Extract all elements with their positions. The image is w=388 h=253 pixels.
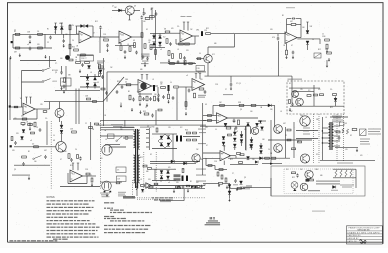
bridge rectifier D25: [167, 136, 170, 139]
ground: [63, 90, 65, 92]
wire: [203, 157, 220, 159]
ground: [28, 177, 30, 179]
svg-text:LF: LF: [222, 154, 224, 156]
resistor R85: [149, 186, 153, 188]
diode D34: [222, 142, 225, 145]
diode D5: [112, 9, 126, 11]
diode D58: [228, 191, 231, 194]
resistor R80b: [193, 139, 197, 141]
capacitor C41: [44, 156, 47, 157]
bridge rectifier D28: [160, 171, 163, 174]
svg-text:1N: 1N: [104, 115, 106, 117]
svg-text:10K: 10K: [302, 27, 305, 29]
resistor R79b: [187, 139, 191, 141]
diode D53: [259, 121, 261, 124]
wire: [21, 71, 23, 108]
diode D35: [234, 128, 236, 132]
wire: [76, 26, 78, 34]
wire: [293, 91, 314, 93]
resistor R116: [99, 72, 101, 77]
ground: [328, 58, 330, 60]
svg-text:CR4: CR4: [315, 169, 318, 171]
ground: [356, 149, 358, 151]
svg-text:50V: 50V: [12, 150, 15, 152]
diode D15: [94, 74, 96, 77]
capacitor C36: [233, 120, 236, 121]
resistor R13: [141, 33, 143, 38]
resistor R124: [93, 101, 97, 103]
wire: [313, 85, 315, 106]
svg-text:IC2: IC2: [308, 90, 311, 92]
capacitor C28 electrolytic: [168, 85, 170, 91]
switch S4: [34, 156, 42, 159]
svg-text:DATE OF: DATE OF: [348, 240, 357, 243]
svg-text:353: 353: [16, 133, 19, 135]
svg-text:15V: 15V: [40, 104, 43, 106]
resistor array R105: [340, 170, 342, 177]
diode D47: [141, 189, 143, 192]
svg-text:10: 10: [215, 129, 217, 131]
speaker enclosure dotted: [284, 169, 353, 194]
op-amp U3: [23, 103, 35, 115]
connector pin: [146, 137, 149, 139]
resistor R32: [327, 52, 332, 54]
svg-text:CR4: CR4: [196, 30, 199, 32]
resistor R31: [286, 50, 288, 55]
note line 13: [53, 239, 58, 240]
wire: [179, 86, 192, 88]
svg-text:R22: R22: [117, 81, 120, 83]
note line 11: [47, 233, 50, 234]
resistor R60: [251, 104, 256, 106]
capacitor C29: [188, 90, 191, 91]
wire: [30, 97, 32, 104]
wire: [223, 182, 230, 184]
wire: [96, 124, 206, 126]
svg-text:R12: R12: [230, 159, 233, 161]
wire: [334, 125, 340, 127]
resistor R110: [136, 182, 138, 196]
diode D21: [21, 137, 24, 140]
connector pin: [146, 129, 149, 131]
note line 2: [47, 204, 52, 205]
wire: [334, 135, 340, 137]
ground: [45, 55, 47, 57]
svg-text:D2: D2: [32, 144, 34, 146]
node part number text: [286, 7, 295, 8]
svg-text:uF: uF: [160, 49, 162, 51]
svg-text:R22: R22: [292, 177, 295, 179]
wire: [230, 187, 246, 189]
resistor R40: [21, 123, 25, 125]
wire: [175, 39, 177, 44]
diode D8: [159, 34, 161, 36]
diode D10: [307, 22, 309, 30]
resistor R100: [336, 131, 340, 133]
wire: [107, 71, 206, 73]
ground: [140, 111, 142, 113]
diode D33: [222, 137, 225, 140]
ground: [226, 186, 228, 188]
resistor R121: [228, 134, 232, 136]
capacitor C34: [230, 84, 233, 85]
resistor R69: [34, 146, 39, 148]
capacitor C27 electrolytic: [153, 85, 155, 91]
wire: [258, 120, 266, 122]
svg-text:D2: D2: [146, 29, 148, 31]
switch S3: [42, 81, 44, 83]
svg-text:33K: 33K: [270, 109, 273, 111]
svg-text:.01: .01: [90, 72, 92, 74]
resistor R24: [185, 43, 190, 45]
resistor R129: [239, 162, 243, 164]
diode D39: [240, 140, 243, 143]
wire: [316, 180, 340, 182]
ground: [326, 50, 328, 52]
resistor R90: [219, 169, 223, 171]
wire: [165, 32, 180, 34]
diode D44: [240, 181, 243, 184]
ground: [10, 56, 12, 58]
wire: [152, 133, 165, 135]
svg-text:10K: 10K: [65, 34, 68, 36]
svg-text:15V: 15V: [168, 127, 171, 129]
svg-text:33K: 33K: [120, 129, 123, 131]
svg-text:2.2K: 2.2K: [197, 68, 200, 70]
ground: [106, 194, 108, 196]
connector ladder: [148, 128, 150, 150]
capacitor C3: [49, 37, 52, 38]
svg-text:LF: LF: [177, 49, 179, 51]
svg-text:C7: C7: [112, 6, 114, 8]
capacitor C14: [169, 44, 172, 45]
capacitor C25: [121, 87, 124, 88]
connector pin: [146, 146, 149, 148]
op-amp U1B: [119, 31, 132, 43]
svg-text:47: 47: [194, 82, 196, 84]
resistor R3: [38, 33, 43, 35]
wire: [92, 36, 100, 38]
svg-text:CR4: CR4: [200, 159, 203, 161]
op-amp U5: [192, 79, 205, 91]
resistor R10: [145, 17, 150, 19]
wire: [103, 77, 124, 102]
op-amp U6: [217, 113, 228, 123]
resistor R62: [307, 95, 311, 97]
capacitor C54: [200, 185, 202, 188]
resistor R70: [11, 137, 13, 141]
resistor R44: [170, 63, 175, 65]
fuse F2: [116, 182, 120, 184]
svg-text:22: 22: [285, 135, 287, 137]
svg-text:47: 47: [93, 33, 95, 35]
svg-text:100: 100: [218, 116, 221, 118]
wire: [102, 58, 104, 126]
bridge rectifier D26: [160, 143, 163, 146]
resistor R92: [221, 175, 223, 179]
wire: [285, 127, 287, 158]
capacitor C15 electrolytic: [201, 31, 203, 36]
wire: [289, 87, 320, 89]
node text: [111, 124, 123, 125]
note2 line 2: [110, 210, 113, 211]
svg-text:CR4: CR4: [322, 36, 325, 38]
diode D60: [255, 161, 258, 164]
svg-text:10: 10: [199, 53, 201, 55]
ground: [29, 40, 31, 42]
wire: [151, 8, 153, 20]
diode D1: [55, 23, 57, 27]
node input jack J1: [11, 41, 13, 43]
wire: [36, 109, 38, 119]
wire: [319, 39, 321, 44]
resistor R127: [238, 187, 242, 189]
wire: [115, 45, 135, 47]
svg-text:470: 470: [168, 167, 171, 169]
wire: [152, 168, 176, 170]
resistor R122: [240, 154, 244, 156]
wire: [100, 36, 119, 38]
svg-text:LF: LF: [36, 127, 38, 129]
transformer T1 primary winding: [133, 131, 135, 148]
wire: [334, 130, 340, 132]
diode D56: [247, 157, 250, 160]
capacitor C55: [101, 77, 104, 78]
resistor R59: [239, 104, 244, 106]
wire: [245, 126, 247, 150]
transistor Q1: [125, 6, 134, 15]
wire: [124, 120, 126, 126]
wire: [290, 105, 344, 107]
wire: [55, 89, 100, 91]
svg-text:100: 100: [143, 21, 146, 23]
op-amp U4: [138, 80, 152, 93]
resistor R80: [193, 132, 197, 134]
svg-text:R1: R1: [25, 107, 27, 109]
node text: [98, 69, 105, 70]
diode D48: [191, 186, 194, 188]
diode D46: [333, 186, 336, 189]
ground: [91, 183, 93, 185]
resistor R91: [217, 172, 219, 176]
note line 5: [47, 213, 52, 214]
wire: [106, 72, 108, 102]
svg-text:50V: 50V: [270, 29, 273, 31]
svg-text:.01: .01: [148, 42, 150, 44]
diode D3: [76, 25, 81, 27]
wire: [203, 183, 219, 185]
svg-text:R12: R12: [318, 49, 321, 51]
transformer T2 secondary: [332, 124, 334, 146]
resistor R75: [68, 154, 70, 159]
svg-text:50V: 50V: [176, 182, 179, 184]
wire: [205, 75, 293, 77]
wire: [262, 163, 282, 165]
capacitor C59: [157, 99, 160, 100]
title block frame: [347, 226, 383, 244]
wire: [35, 108, 50, 110]
wire: [160, 62, 195, 64]
regulator box VR3: [174, 178, 181, 181]
svg-text:.01: .01: [325, 117, 327, 119]
diode D43: [260, 151, 263, 154]
svg-text:C4: C4: [75, 149, 77, 151]
resistor R56: [208, 115, 212, 117]
wire: [150, 161, 200, 163]
wire: [129, 15, 131, 21]
capacitor C19: [292, 52, 295, 53]
potentiometer VR1: [177, 187, 180, 189]
resistor R38: [43, 111, 47, 113]
node text: [223, 94, 233, 95]
transistor Q15: [55, 109, 64, 118]
capacitor C44: [79, 158, 82, 159]
ground: [289, 108, 291, 110]
wire: [72, 163, 74, 170]
capacitor C45 electrolytic: [176, 136, 178, 142]
wire: [44, 101, 103, 103]
svg-text:33K: 33K: [118, 43, 121, 45]
svg-text:68: 68: [53, 140, 55, 142]
svg-text:47: 47: [206, 145, 208, 147]
diode D51: [224, 123, 227, 126]
resistor R68: [31, 132, 35, 134]
resistor R20: [166, 39, 168, 44]
jack J4: [10, 145, 12, 147]
svg-text:1W: 1W: [310, 26, 313, 28]
wire: [46, 121, 48, 145]
svg-text:10K: 10K: [64, 151, 67, 153]
node text: [198, 95, 206, 96]
wire: [158, 134, 172, 148]
svg-text:2.2K: 2.2K: [215, 84, 218, 86]
resistor R94: [271, 157, 276, 159]
svg-text:R12: R12: [70, 165, 73, 167]
svg-text:C7: C7: [55, 63, 57, 65]
svg-text:470: 470: [318, 89, 321, 91]
capacitor C2: [29, 48, 32, 49]
resistor R37: [14, 106, 18, 108]
resistor R83: [148, 168, 152, 170]
resistor R84: [182, 169, 184, 173]
resistor R82: [143, 165, 147, 167]
ground: [187, 189, 189, 191]
node text: [340, 185, 354, 186]
wire: [134, 9, 141, 11]
ground: [139, 103, 141, 105]
svg-text:IC2: IC2: [212, 54, 215, 56]
diode D19 LED: [335, 97, 337, 99]
wire: [157, 87, 159, 94]
resistor R58: [220, 104, 225, 106]
wire dotted: [336, 114, 338, 161]
wire: [148, 188, 205, 190]
svg-text:IC2: IC2: [180, 127, 183, 129]
diode D11: [306, 41, 309, 44]
resistor R43: [99, 64, 101, 69]
resistor R109: [310, 179, 314, 181]
wire: [296, 138, 318, 140]
op-amp U2B: [285, 32, 297, 44]
resistor R118: [185, 102, 187, 107]
svg-text:68: 68: [345, 123, 347, 125]
transistor Q9: [251, 127, 258, 134]
ground: [19, 54, 21, 56]
wire: [61, 66, 63, 71]
op-amp U1A: [79, 31, 92, 43]
capacitor C50: [234, 180, 237, 181]
resistor R103: [352, 129, 357, 131]
svg-text:4K7: 4K7: [196, 182, 199, 184]
svg-text:22: 22: [47, 42, 49, 44]
wire: [278, 41, 280, 76]
node footer text: [10, 240, 14, 241]
note line 4: [47, 210, 52, 211]
wire: [322, 132, 328, 134]
svg-text:33K: 33K: [316, 119, 319, 121]
svg-text:R12: R12: [198, 72, 201, 74]
svg-text:680: 680: [320, 175, 323, 177]
svg-text:uF: uF: [168, 182, 170, 184]
svg-text:68: 68: [164, 29, 166, 31]
bridge rectifier D30: [160, 176, 163, 179]
svg-text:CHECKED NO: CHECKED NO: [348, 235, 362, 237]
capacitor C9: [124, 52, 127, 53]
svg-text:10: 10: [170, 82, 172, 84]
svg-text:68: 68: [133, 40, 135, 42]
ground: [230, 87, 232, 89]
wire: [49, 56, 51, 67]
capacitor C40: [14, 142, 17, 143]
resistor R46: [189, 63, 193, 65]
wire: [202, 103, 204, 140]
resistor array R107: [350, 170, 352, 177]
resistor R34: [64, 78, 66, 83]
wire: [60, 186, 100, 188]
ground: [292, 56, 294, 58]
bridge rectifier D27: [167, 143, 170, 146]
svg-text:LF: LF: [152, 79, 154, 81]
resistor R55: [199, 88, 204, 90]
wire: [187, 22, 189, 31]
svg-text:.01: .01: [26, 122, 28, 124]
ground: [326, 60, 328, 64]
svg-text:R22 680: R22 680: [52, 70, 58, 72]
resistor R49: [174, 86, 179, 88]
wire: [100, 127, 135, 129]
wire: [132, 36, 142, 38]
wire: [80, 86, 100, 88]
relay box K2: [116, 167, 126, 173]
wire: [223, 146, 225, 151]
diode D23: [60, 130, 63, 133]
svg-text:C7: C7: [90, 175, 92, 177]
transformer T1 secondary winding lower: [138, 155, 140, 183]
svg-text:DESIGN BY: DESIGN BY: [348, 238, 360, 240]
svg-text:R22: R22: [206, 28, 209, 30]
note line 6: [47, 217, 51, 218]
op-amp U8: [220, 151, 231, 161]
wire: [100, 119, 206, 121]
resistor R78: [91, 178, 93, 182]
wire dotted: [318, 114, 320, 163]
wire: [330, 116, 348, 118]
wire: [92, 26, 94, 37]
resistor R57: [208, 120, 212, 122]
wire: [300, 19, 302, 38]
resistor R76: [77, 155, 79, 159]
svg-text:10: 10: [160, 181, 162, 183]
